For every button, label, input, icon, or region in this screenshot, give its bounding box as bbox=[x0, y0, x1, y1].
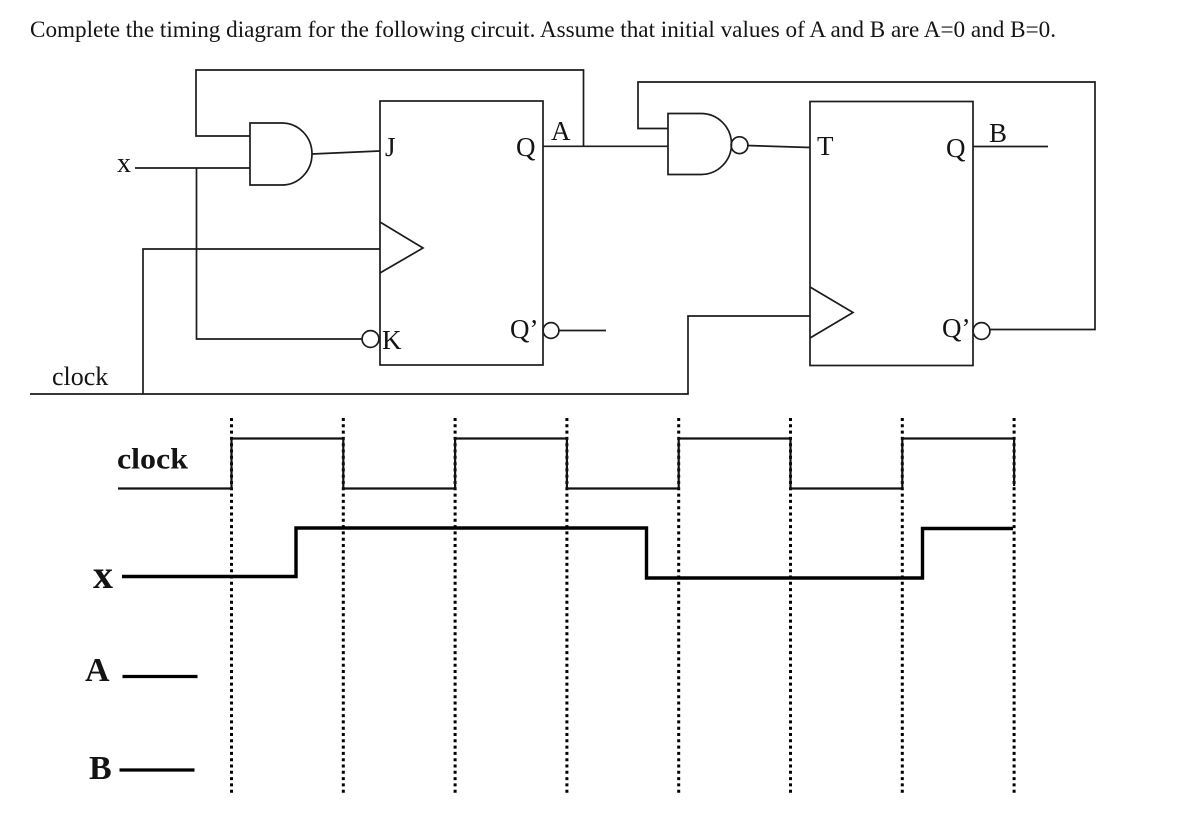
svg-text:J: J bbox=[385, 132, 396, 162]
wire: node A from Q of U2 to NAND input bbox=[543, 145, 668, 147]
wire: x branch down to K input bbox=[197, 168, 363, 339]
clock edge marker 6 bbox=[789, 418, 792, 794]
wire: NAND output to T pin bbox=[747, 146, 810, 148]
svg-text:Q’: Q’ bbox=[942, 313, 971, 343]
timing row A initial level line bbox=[123, 675, 198, 678]
clock edge marker 5 bbox=[677, 418, 680, 794]
wire: feedback from node A up and over to AND gate top input bbox=[196, 70, 584, 146]
svg-text:Q: Q bbox=[946, 133, 966, 163]
clock edge marker 1 bbox=[230, 418, 233, 794]
clock edge marker 3 bbox=[454, 418, 457, 794]
timing x waveform bbox=[122, 528, 1013, 578]
svg-text:clock: clock bbox=[52, 362, 108, 391]
wire: Q' of U2 stub bbox=[559, 330, 607, 332]
AND gate U1 bbox=[250, 123, 312, 185]
wire: clock main line bbox=[30, 316, 810, 394]
svg-text:T: T bbox=[817, 131, 834, 161]
svg-text:B: B bbox=[989, 118, 1007, 148]
timing clock waveform bbox=[118, 439, 1014, 489]
wire: x input to AND gate bottom input bbox=[135, 167, 250, 169]
NAND gate U3 bubble bbox=[731, 137, 748, 154]
svg-text:Q’: Q’ bbox=[510, 314, 539, 344]
clock edge marker 8 bbox=[1013, 418, 1016, 794]
wire: AND gate output to J pin bbox=[312, 151, 380, 154]
svg-text:B: B bbox=[89, 750, 112, 787]
JK flip-flop U2 box bbox=[380, 101, 543, 365]
T flip-flop U4 clock triangle bbox=[810, 287, 853, 338]
NAND gate U3 bbox=[668, 114, 731, 175]
svg-text:Complete the timing diagram fo: Complete the timing diagram for the foll… bbox=[30, 17, 1056, 43]
timing row B initial level line bbox=[120, 768, 195, 771]
wire: clock branch to U2 clock input bbox=[143, 249, 380, 394]
clock edge marker 4 bbox=[565, 418, 568, 794]
svg-text:Q: Q bbox=[516, 132, 536, 162]
svg-text:x: x bbox=[93, 552, 113, 597]
svg-text:A: A bbox=[551, 116, 571, 146]
T flip-flop U4 box bbox=[810, 102, 973, 366]
svg-text:clock: clock bbox=[117, 443, 188, 476]
JK flip-flop U2 clock triangle bbox=[380, 222, 423, 273]
clock edge marker 2 bbox=[342, 418, 345, 794]
Q' output bubble of U2 bbox=[543, 323, 559, 339]
svg-text:K: K bbox=[382, 325, 402, 355]
Q' output bubble of U4 bbox=[973, 323, 990, 340]
wire: B output from Q of U4 bbox=[973, 146, 1048, 148]
clock edge marker 7 bbox=[901, 418, 904, 794]
K input bubble bbox=[362, 331, 379, 348]
wire: feedback from Q' of U4 over the top to NAND top input bbox=[638, 82, 1095, 330]
svg-text:A: A bbox=[85, 652, 110, 689]
svg-text:x: x bbox=[117, 148, 131, 179]
